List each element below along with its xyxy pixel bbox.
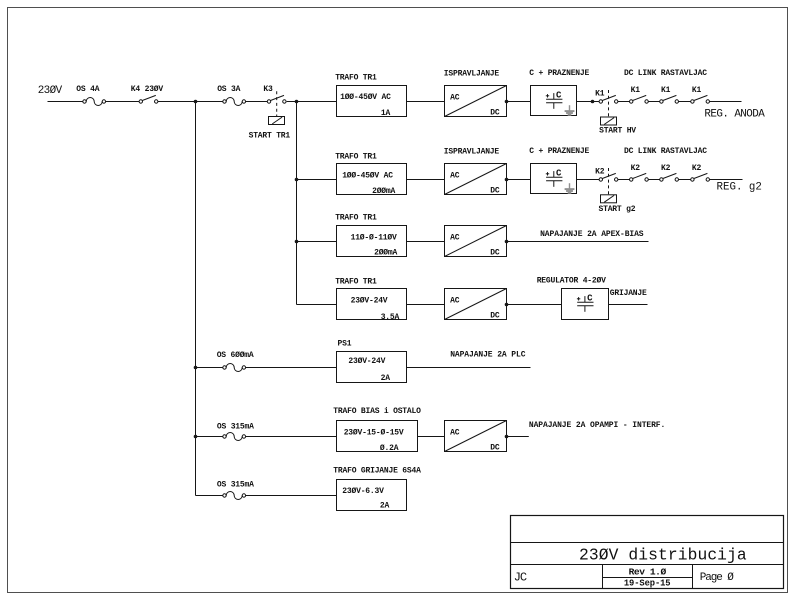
wire row1 input bbox=[48, 101, 83, 103]
actuator dashed link K2 bbox=[608, 168, 610, 195]
svg-text:C + PRAZNENJE: C + PRAZNENJE bbox=[529, 69, 589, 78]
svg-text:1ØØ-45ØV AC: 1ØØ-45ØV AC bbox=[340, 93, 391, 102]
svg-text:K2: K2 bbox=[595, 168, 605, 177]
wire row6 c bbox=[418, 436, 445, 438]
svg-text:K4 23ØV: K4 23ØV bbox=[131, 85, 164, 94]
vertical feed bus B bbox=[296, 102, 298, 305]
svg-text:TRAFO GRIJANJE 6S4A: TRAFO GRIJANJE 6S4A bbox=[333, 466, 421, 475]
svg-text:DC LINK RASTAVLJAC: DC LINK RASTAVLJAC bbox=[624, 69, 707, 78]
junction node feed-A row1 bbox=[194, 100, 198, 104]
wire row1 i bbox=[648, 101, 659, 103]
wire row2 c bbox=[507, 179, 531, 181]
wire row5 a bbox=[196, 367, 223, 369]
fuse OS 600mA bbox=[223, 364, 246, 372]
svg-text:23ØV: 23ØV bbox=[38, 85, 63, 97]
svg-text:REGULATOR 4-2ØV: REGULATOR 4-2ØV bbox=[537, 276, 606, 285]
svg-text:DC: DC bbox=[490, 444, 500, 453]
wire row7 b bbox=[246, 495, 337, 497]
wire row2 e bbox=[618, 179, 630, 181]
junction node feed-A row5 bbox=[194, 366, 198, 370]
switch K4 bbox=[139, 95, 158, 103]
wire row1 e bbox=[407, 101, 445, 103]
ground in C box row2 bbox=[565, 183, 575, 193]
junction node U3 output bbox=[505, 240, 509, 244]
wire row1 h bbox=[618, 101, 630, 103]
fuse OS 3A bbox=[223, 98, 246, 106]
title block frame bbox=[511, 516, 784, 589]
fuse OS 315mA row7 bbox=[223, 492, 246, 500]
actuator dashed link K1 bbox=[608, 90, 610, 117]
junction node U5 output bbox=[505, 435, 509, 439]
wire row2 d bbox=[577, 179, 600, 181]
svg-text:JC: JC bbox=[514, 571, 527, 585]
wire row2 g bbox=[679, 179, 691, 181]
wire row1 d bbox=[287, 101, 337, 103]
svg-text:AC: AC bbox=[450, 172, 460, 181]
svg-text:K2: K2 bbox=[692, 164, 702, 173]
svg-text:OS 315mA: OS 315mA bbox=[217, 481, 254, 490]
wire row1 k bbox=[710, 101, 742, 103]
wire row1 a bbox=[106, 101, 140, 103]
svg-text:TRAFO BIAS i OSTALO: TRAFO BIAS i OSTALO bbox=[333, 407, 421, 416]
wire row7 a bbox=[196, 495, 223, 497]
svg-text:K2: K2 bbox=[661, 164, 671, 173]
svg-text:2A: 2A bbox=[381, 374, 391, 383]
junction node U4 output bbox=[505, 303, 509, 307]
svg-text:C + PRAZNENJE: C + PRAZNENJE bbox=[529, 147, 589, 156]
transformer GRIJANJE box bbox=[337, 480, 407, 511]
svg-text:1A: 1A bbox=[381, 109, 391, 118]
svg-text:Rev 1.Ø: Rev 1.Ø bbox=[629, 567, 667, 578]
wire row6 b bbox=[246, 436, 337, 438]
switch K2 b bbox=[630, 173, 649, 181]
power supply PS1 box bbox=[337, 352, 407, 383]
wire row2 b bbox=[407, 179, 445, 181]
switch K1 c bbox=[660, 95, 679, 103]
wire row6 a bbox=[196, 436, 223, 438]
svg-text:REG. ANODA: REG. ANODA bbox=[704, 108, 765, 120]
svg-text:OS 6ØØmA: OS 6ØØmA bbox=[217, 351, 254, 360]
svg-text:23ØV distribucija: 23ØV distribucija bbox=[579, 546, 747, 565]
svg-text:Page Ø: Page Ø bbox=[700, 572, 735, 584]
wire row4 d bbox=[609, 304, 648, 306]
junction node U1 output bbox=[505, 100, 509, 104]
switch K1 d bbox=[691, 95, 710, 103]
svg-text:DC LINK RASTAVLJAC: DC LINK RASTAVLJAC bbox=[624, 147, 707, 156]
junction node feed-A row6 bbox=[194, 435, 198, 439]
svg-text:ISPRAVLJANJE: ISPRAVLJANJE bbox=[444, 147, 500, 156]
svg-text:START TR1: START TR1 bbox=[249, 132, 291, 141]
transformer BIAS box bbox=[337, 421, 418, 452]
switch K1 b bbox=[630, 95, 649, 103]
svg-text:K1: K1 bbox=[595, 90, 605, 99]
svg-text:K2: K2 bbox=[631, 164, 641, 173]
capacitor bank C row1 box bbox=[531, 86, 577, 116]
svg-text:K1: K1 bbox=[631, 86, 641, 95]
svg-text:DC: DC bbox=[490, 249, 500, 258]
svg-text:2ØØmA: 2ØØmA bbox=[374, 248, 397, 257]
svg-text:TRAFO TR1: TRAFO TR1 bbox=[335, 214, 377, 223]
AC-DC converter U5 bbox=[445, 421, 507, 453]
wire row1 c bbox=[246, 101, 268, 103]
svg-text:K3: K3 bbox=[263, 85, 273, 94]
svg-text:23ØV-15-Ø-15V: 23ØV-15-Ø-15V bbox=[344, 429, 404, 438]
ground in C box row1 bbox=[565, 105, 575, 115]
svg-text:OS 315mA: OS 315mA bbox=[217, 423, 254, 432]
switch K2 d bbox=[691, 173, 710, 181]
junction node feed-B row1 bbox=[295, 100, 299, 104]
wire row3 a bbox=[297, 241, 337, 243]
wire row3 b bbox=[407, 241, 445, 243]
relay coil K2 START g2 bbox=[601, 195, 617, 203]
fuse OS 315mA row6 bbox=[223, 433, 246, 441]
AC-DC converter U3 bbox=[445, 226, 507, 258]
svg-text:K1: K1 bbox=[661, 86, 671, 95]
junction node DC link row1 bbox=[591, 100, 595, 104]
AC-DC converter U2 bbox=[445, 164, 507, 196]
transformer TR1 row4 box bbox=[337, 289, 407, 320]
junction node feed-B row3 bbox=[295, 240, 299, 244]
junction node feed-B row2 bbox=[295, 178, 299, 182]
svg-text:TRAFO TR1: TRAFO TR1 bbox=[335, 73, 377, 82]
svg-text:START HV: START HV bbox=[599, 126, 636, 135]
AC-DC converter U4 bbox=[445, 289, 507, 321]
wire row5 b bbox=[246, 367, 337, 369]
svg-text:Ø.2A: Ø.2A bbox=[380, 444, 399, 453]
svg-text:19-Sep-15: 19-Sep-15 bbox=[624, 579, 671, 589]
svg-text:OS 4A: OS 4A bbox=[76, 85, 99, 94]
wire row1 b bbox=[158, 101, 223, 103]
wire row4 c bbox=[507, 304, 562, 306]
wire row2 f bbox=[648, 179, 659, 181]
transformer TR1 row3 box bbox=[337, 226, 407, 257]
svg-text:START g2: START g2 bbox=[599, 205, 636, 214]
vertical feed bus A bbox=[195, 102, 197, 496]
svg-text:NAPAJANJE 2A APEX-BIAS: NAPAJANJE 2A APEX-BIAS bbox=[540, 230, 644, 239]
svg-text:TRAFO TR1: TRAFO TR1 bbox=[335, 153, 377, 162]
switch K1 a bbox=[599, 95, 618, 103]
svg-text:AC: AC bbox=[450, 429, 460, 438]
wire row4 a bbox=[297, 304, 337, 306]
svg-text:AC: AC bbox=[450, 297, 460, 306]
wire row4 b bbox=[407, 304, 445, 306]
svg-text:2A: 2A bbox=[380, 502, 390, 511]
wire row2 h bbox=[710, 179, 743, 181]
wire row1 j bbox=[679, 101, 691, 103]
switch K2 c bbox=[660, 173, 679, 181]
svg-text:DC: DC bbox=[490, 312, 500, 321]
junction node U2 output bbox=[505, 178, 509, 182]
transformer TR1 row2 box bbox=[337, 164, 407, 195]
wire row1 f bbox=[507, 101, 531, 103]
wire row1 g bbox=[577, 101, 600, 103]
svg-text:2ØØmA: 2ØØmA bbox=[372, 187, 395, 196]
wire row2 a bbox=[297, 179, 337, 181]
fuse OS 4A bbox=[83, 98, 106, 106]
relay coil K1 START HV bbox=[601, 117, 617, 125]
transformer TR1 row1 box bbox=[337, 86, 407, 117]
svg-text:AC: AC bbox=[450, 234, 460, 243]
svg-text:DC: DC bbox=[490, 109, 500, 118]
svg-text:NAPAJANJE 2A PLC: NAPAJANJE 2A PLC bbox=[450, 350, 526, 359]
svg-text:GRIJANJE: GRIJANJE bbox=[610, 289, 647, 298]
switch K3 bbox=[267, 95, 286, 103]
svg-text:23ØV-24V: 23ØV-24V bbox=[351, 296, 388, 305]
svg-text:PS1: PS1 bbox=[338, 339, 352, 348]
svg-text:NAPAJANJE 2A OPAMPI - INTERF.: NAPAJANJE 2A OPAMPI - INTERF. bbox=[529, 421, 665, 430]
wire row3 c bbox=[507, 241, 649, 243]
svg-text:OS 3A: OS 3A bbox=[217, 85, 240, 94]
svg-text:3.5A: 3.5A bbox=[381, 313, 400, 322]
svg-text:K1: K1 bbox=[692, 86, 702, 95]
wire row6 d bbox=[507, 436, 529, 438]
svg-text:DC: DC bbox=[490, 187, 500, 196]
switch K2 a bbox=[599, 173, 618, 181]
relay coil K3 START TR1 bbox=[269, 117, 285, 125]
svg-text:AC: AC bbox=[450, 94, 460, 103]
regulator 4-20V box bbox=[562, 289, 609, 320]
actuator dashed link K3 bbox=[276, 91, 278, 116]
svg-text:REG. g2: REG. g2 bbox=[717, 182, 762, 194]
svg-text:ISPRAVLJANJE: ISPRAVLJANJE bbox=[444, 69, 500, 78]
capacitor bank C row2 box bbox=[531, 164, 577, 194]
wire row5 c bbox=[407, 367, 531, 369]
svg-text:23ØV-6.3V: 23ØV-6.3V bbox=[342, 487, 384, 496]
svg-text:1ØØ-45ØV AC: 1ØØ-45ØV AC bbox=[342, 171, 393, 180]
svg-text:11Ø-Ø-11ØV: 11Ø-Ø-11ØV bbox=[351, 234, 397, 243]
svg-text:TRAFO TR1: TRAFO TR1 bbox=[335, 277, 377, 286]
AC-DC converter U1 bbox=[445, 86, 507, 118]
svg-text:23ØV-24V: 23ØV-24V bbox=[348, 357, 385, 366]
